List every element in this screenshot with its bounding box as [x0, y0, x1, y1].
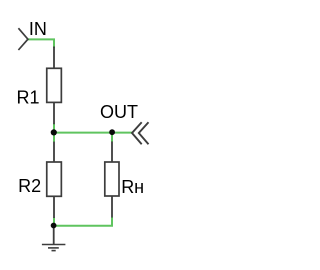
- resistor R1 body: [47, 68, 62, 102]
- svg-text:IN: IN: [29, 19, 47, 39]
- connector IN chevron: [18, 28, 28, 50]
- wire: bottom bus Rh bottom to node C: [54, 217, 112, 226]
- connector OUT double chevron: [132, 122, 149, 144]
- resistor Rh body: [105, 162, 119, 196]
- node B junction dot (bus/Rh): [109, 129, 115, 135]
- wire: node B down to Rh top pin: [111, 133, 113, 142]
- resistor R2 body: [47, 162, 62, 196]
- resistor R1 pins: [53, 47, 55, 125]
- node A junction dot (R1/R2/OUT): [51, 129, 57, 135]
- wire IN net: from IN connector to R1 top pin: [28, 39, 54, 48]
- svg-text:Rн: Rн: [121, 177, 144, 197]
- svg-text:R2: R2: [18, 176, 41, 196]
- svg-text:R1: R1: [17, 88, 40, 108]
- svg-text:OUT: OUT: [100, 102, 138, 122]
- wire: middle bus node A to OUT connector: [54, 132, 132, 134]
- wire: R1 bottom pin to middle node A: [53, 124, 55, 143]
- ground symbol: [42, 226, 66, 251]
- wire: R2 bottom pin to ground node C: [53, 218, 55, 226]
- node C junction dot (ground): [51, 223, 57, 229]
- resistor Rh pins: [111, 142, 113, 218]
- resistor R2 pins: [53, 142, 55, 218]
